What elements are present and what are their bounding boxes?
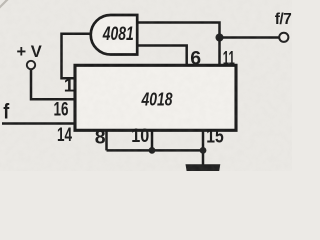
wire pin 8 down <box>105 131 108 150</box>
wire pin 15 down to ground <box>202 131 205 165</box>
scan corner artifact <box>0 0 8 8</box>
ground symbol <box>186 164 221 171</box>
terminal f/7 output circle <box>279 33 288 42</box>
terminal +V supply circle <box>27 61 35 69</box>
junction dot at pin 10 <box>149 147 156 154</box>
wire node to f/7 terminal <box>220 36 279 39</box>
wire AND output to pin 1 of 4018 <box>62 34 92 78</box>
wire pin 11 node to AND top input <box>138 23 220 66</box>
wire ground bus <box>107 149 204 152</box>
IC U2 4018 body <box>75 65 236 130</box>
wire f input to pin 14 <box>2 122 74 125</box>
wire AND bottom input to pin 6 <box>138 46 187 66</box>
paper background <box>0 0 292 171</box>
scan grain overlay <box>0 0 292 171</box>
wire pin 10 down <box>151 131 154 150</box>
junction dot at pin 11 node <box>216 34 224 42</box>
junction dot at pin 15 <box>200 147 207 154</box>
AND gate U1 4081 body (inputs on right) <box>91 15 137 55</box>
wire +V to pin 16 <box>31 69 74 99</box>
